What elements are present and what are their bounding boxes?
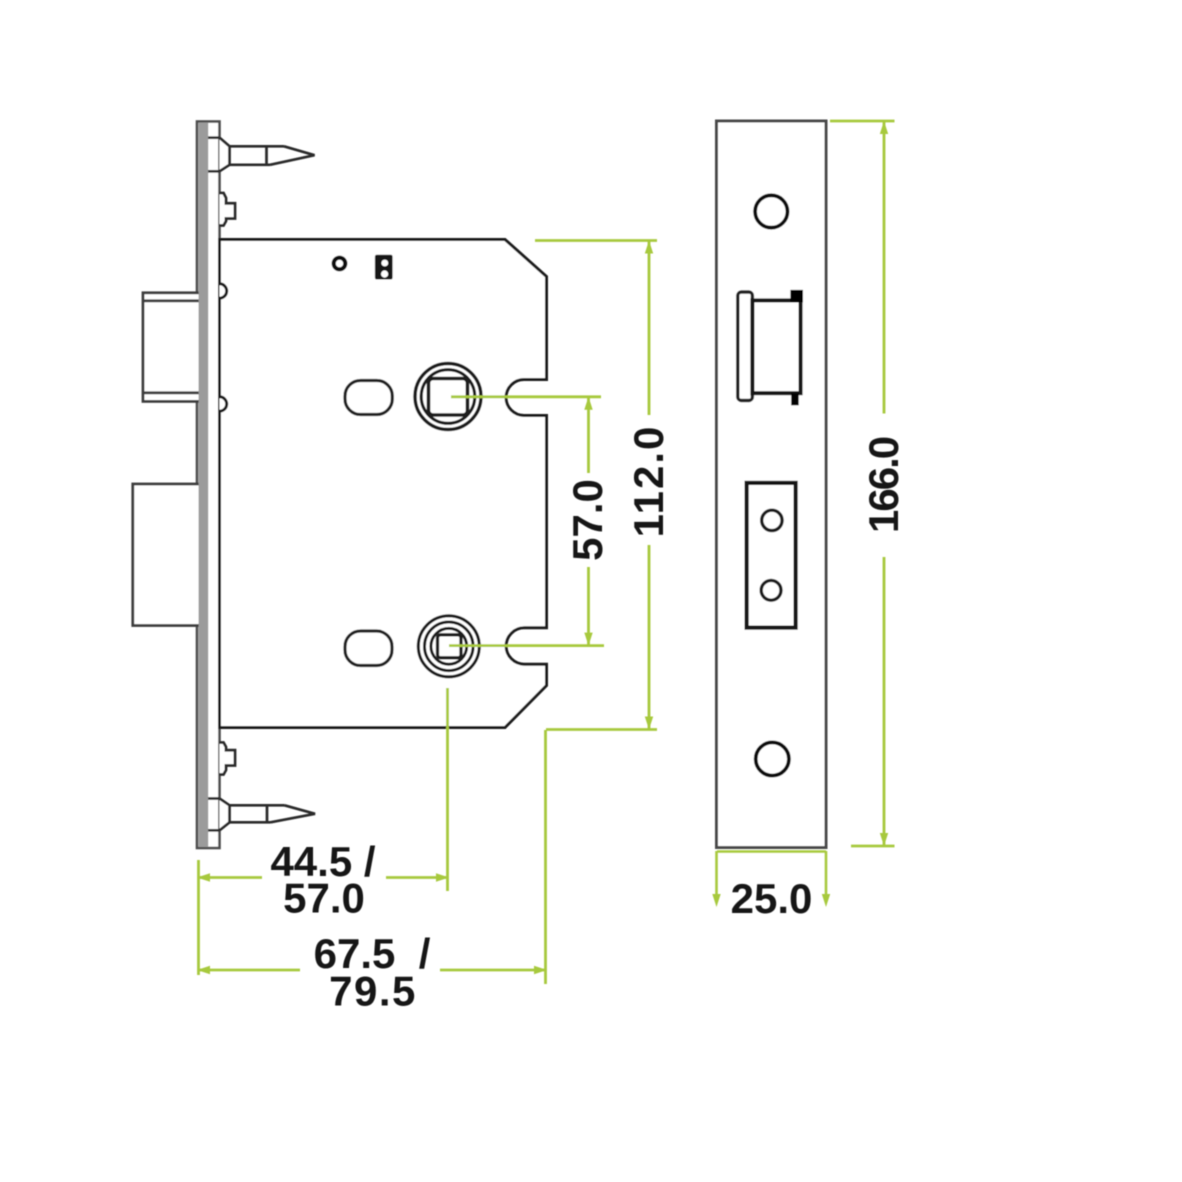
- faceplate gray strip: [199, 123, 209, 848]
- top screw hole: [755, 195, 787, 227]
- faceplate front view (right): [717, 121, 827, 848]
- upper oval slot: [345, 381, 392, 415]
- svg-text:112.0: 112.0: [625, 425, 672, 538]
- deadbolt side view: [133, 484, 201, 626]
- dimension 166.0: [830, 121, 895, 846]
- fixing pin top: [204, 138, 315, 172]
- dimension 57.0: [449, 397, 604, 646]
- lock case body: [220, 240, 547, 728]
- case rivet bump lower: [220, 397, 227, 411]
- svg-text:79.5: 79.5: [329, 968, 417, 1015]
- spindle stub bottom: [220, 743, 236, 775]
- dimension 112.0: [535, 241, 657, 730]
- bottom screw hole: [756, 742, 789, 775]
- small ring marker: [334, 258, 346, 270]
- spindle stub top: [220, 193, 236, 226]
- small rect marker: [375, 255, 393, 280]
- faceplate side view (left): [197, 122, 220, 849]
- svg-text:57.0: 57.0: [564, 479, 611, 561]
- case rivet bump upper: [220, 284, 227, 298]
- lower oval slot: [345, 631, 392, 666]
- svg-text:57.0: 57.0: [283, 875, 365, 922]
- dimension 25.0: [717, 851, 827, 896]
- dimension 67.5 / 79.5: [199, 730, 546, 984]
- dimension 44.5 / 57.0: [199, 688, 448, 975]
- lower spindle boss: [418, 616, 479, 677]
- latch front view: [738, 290, 803, 405]
- latch bolt side view: [143, 293, 201, 402]
- svg-text:166.0: 166.0: [860, 437, 907, 533]
- fixing pin bottom: [204, 799, 316, 831]
- svg-text:25.0: 25.0: [731, 875, 813, 922]
- bolt strike box front view: [747, 483, 796, 628]
- upper spindle boss: [415, 364, 481, 430]
